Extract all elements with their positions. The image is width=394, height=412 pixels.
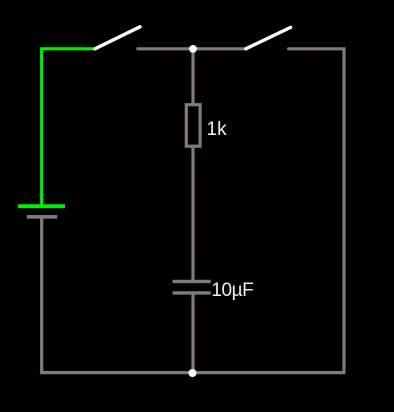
wire: capacitor C1 to node B <box>191 293 194 373</box>
switch S2 (open blade) <box>246 27 291 48</box>
svg-text:10µF: 10µF <box>211 280 253 301</box>
wire: S2 right terminal, top-right corner, right branch down <box>289 49 344 373</box>
wire: battery positive lead (green, top-left corner) <box>42 49 95 205</box>
svg-text:1k: 1k <box>207 119 228 140</box>
battery V1 <box>18 206 65 217</box>
wire: battery negative lead down, bottom-left corner to node B <box>42 217 193 373</box>
capacitor C1 <box>173 281 211 293</box>
wire: node A to S2 left terminal <box>193 47 245 50</box>
node A (junction dot, top rail) <box>189 45 197 53</box>
wire: bottom rail, node B to right branch <box>193 371 345 374</box>
resistor R1 (box symbol) <box>186 105 200 147</box>
switch S1 (open blade) <box>95 27 140 49</box>
wire: node A down to resistor R1 <box>191 49 194 104</box>
wire: S1 right terminal to node A <box>138 47 193 50</box>
node B (junction dot, bottom rail) <box>189 369 197 377</box>
wire: resistor R1 to capacitor C1 <box>191 146 194 280</box>
